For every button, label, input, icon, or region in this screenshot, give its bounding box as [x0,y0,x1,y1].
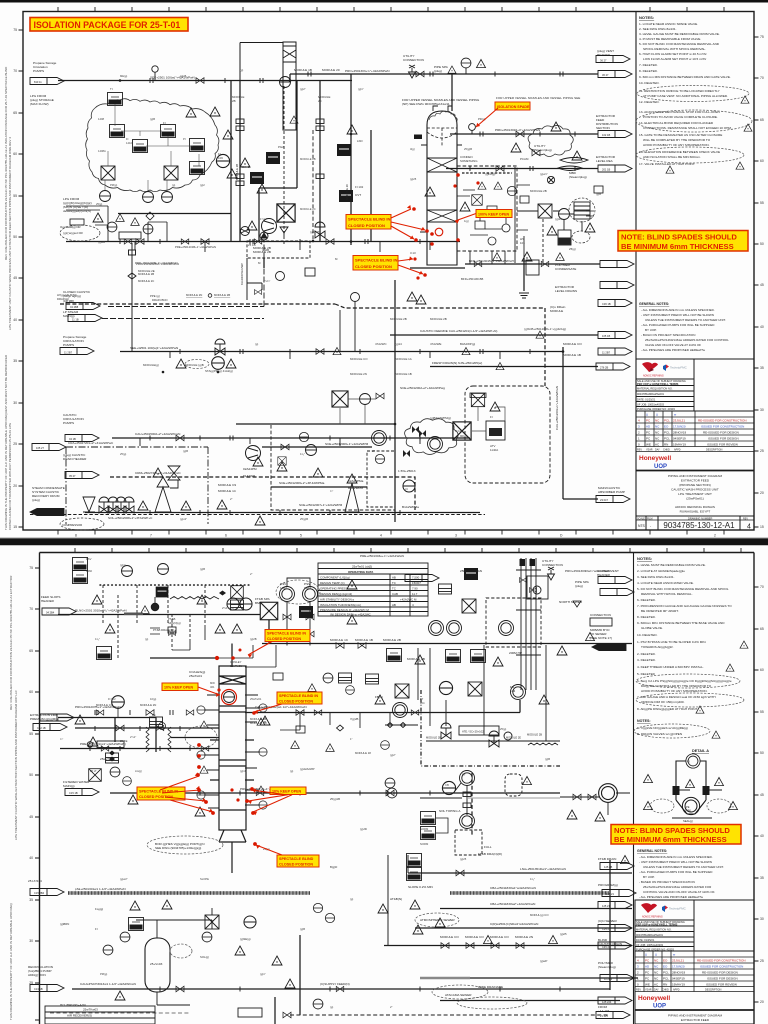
svg-text:10(g): 10(g) [150,697,156,701]
svg-text:25wTw01 (α)(β): 25wTw01 (α)(β) [352,565,372,569]
svg-text:04 2B8: 04 2B8 [70,305,79,309]
bottom-left cluster [129,918,144,931]
right flag drain module [598,332,632,339]
svg-text:LPG TREATMENT UNIT: LPG TREATMENT UNIT [678,492,712,496]
svg-text:NORTH SEWER: NORTH SEWER [559,600,583,604]
svg-text:(g)2B: (g)2B [262,248,269,252]
notes list text [639,22,732,166]
svg-text:MODULE 2B: MODULE 2B [383,638,401,642]
svg-text:75: 75 [29,566,33,570]
page1 border frame [23,12,754,531]
svg-text:3: 3 [638,425,640,429]
svg-text:2"x1": 2"x1" [130,735,136,739]
svg-text:CHKD: CHKD [663,449,670,452]
svg-text:TI: TI [110,87,113,91]
svg-text:PC: PC [646,431,651,435]
svg-text:23 047: 23 047 [600,498,608,502]
svg-text:1- LEVEL MUST BE REMOVABLE FRO: 1- LEVEL MUST BE REMOVABLE FROM VALVE. [637,563,706,567]
fe square on premium [150,717,163,727]
funnel lens B [558,166,582,171]
pipe ftb drain [408,872,632,874]
p2 honeywell uop [638,995,670,1010]
circles under table [429,621,444,636]
dashed drop to tag2 [542,219,544,264]
svg-text:REV 4 RE-ISSUED FOR CONSTRUCTI: REV 4 RE-ISSUED FOR CONSTRUCTION 23JUL21… [9,575,13,710]
svg-text:25 LT: 25 LT [90,769,97,773]
svg-text:PURCHASE ORDER NO: 40303: PURCHASE ORDER NO: 40303 [636,947,674,951]
pipe closed caustic [108,241,264,307]
xd square big lower [453,422,471,440]
cv d [124,497,134,513]
svg-text:Δ: Δ [656,413,658,417]
flag texts p2 [34,611,614,1019]
svg-text:12- DELETED.: 12- DELETED. [639,100,660,104]
svg-text:04 2B4: 04 2B4 [46,611,55,615]
valve on h17 [516,131,524,137]
svg-text:70: 70 [760,76,764,80]
svg-text:40: 40 [29,856,33,860]
svg-text:RLNG+2501 3010w1¹/₂"+42A2WPwN: RLNG+2501 3010w1¹/₂"+42A2WPwN [75,609,127,613]
svg-text:25: 25 [760,449,764,453]
psv valves [283,614,291,620]
svg-text:NTS: NTS [638,524,646,528]
valve at top [376,393,384,399]
svg-text:B(g)D: B(g)D [330,865,337,869]
riser V5 [350,74,352,245]
svg-text:36 27: 36 27 [602,73,609,77]
svg-text:NOTES:: NOTES: [639,15,654,20]
svg-text:PI: PI [687,760,690,764]
svg-text:PRD+2501202B+1"+42A2WPwN: PRD+2501202B+1"+42A2WPwN [135,261,178,265]
P2CONTENT [58,615,638,1024]
svg-text:25(g)B: 25(g)B [300,517,308,521]
flange ticks water line [180,349,530,354]
svg-text:DESIGN TEMP (C): DESIGN TEMP (C) [320,581,345,585]
svg-text:FRESH DRAIN(N) NJN+2501205(w): FRESH DRAIN(N) NJN+2501205(w) [432,361,482,365]
svg-text:AVOID POSSIBILITY OF ANY MISOP: AVOID POSSIBILITY OF ANY MISOPERATION. [641,689,708,693]
cv valve b [489,731,499,747]
ruler ticks left + numbers [19,30,24,527]
gray drain dashed [50,1012,190,1014]
instrument square FI [161,125,176,138]
svg-text:3: 3 [637,965,639,969]
svg-text:C25 21: C25 21 [602,927,611,931]
svg-text:PE: PE [686,805,690,809]
svg-text:Δ: Δ [646,413,648,417]
orange tag keepopen1 [162,683,198,691]
svg-text:¾": ¾" [330,489,333,493]
orange tag sb3 [137,787,185,800]
pipe recirculation long [72,988,610,990]
wire instrument links [105,104,199,191]
svg-text:PUMPS: PUMPS [63,343,74,347]
right flags p2 [600,863,634,870]
detail A pump [682,797,699,814]
detail A triangles [686,780,695,788]
central instrument box SC-25-102 [459,726,499,735]
pump circle small mbd [547,176,554,183]
svg-text:LNA+2501351Dw1"+42A2WCwN: LNA+2501351Dw1"+42A2WCwN [520,867,566,871]
svg-text:35: 35 [29,898,33,902]
svg-text:(g)B: (g)B [150,117,155,121]
svg-text:ISSUED FOR CONSTRUCTION: ISSUED FOR CONSTRUCTION [700,965,743,969]
svg-text:3(g): 3(g) [410,147,415,151]
svg-text:02A24PM: 02A24PM [243,467,257,471]
skirt cone [83,497,95,512]
svg-text:HEADER: HEADER [597,53,611,57]
svg-text:1140A: 1140A [490,448,498,452]
valve 2 [201,239,209,245]
svg-text:PRE+2501301(w1"+42A2WPwN): PRE+2501301(w1"+42A2WPwN) [80,742,126,746]
svg-text:132: 132 [510,689,515,693]
svg-text:FAN: FAN [476,569,482,573]
svg-text:101: 101 [520,241,525,245]
pipe extractor feed dist [450,133,598,135]
svg-text:ATMOSPHERIC SEWER: ATMOSPHERIC SEWER [420,918,455,922]
svg-text:Overhead(g) DR: Overhead(g) DR [60,225,81,229]
svg-text:(g): (g) [290,769,293,773]
svg-text:AD: AD [646,425,651,429]
svg-text:SPECTACLE BLIND IN: SPECTACLE BLIND IN [355,258,397,263]
svg-text:- UNIT INSTRUMENT PREFIX WILL: - UNIT INSTRUMENT PREFIX WILL NOT BE SHO… [639,860,712,864]
svg-text:w: w [674,413,677,417]
svg-text:HCL/BRN(P)+A(N): HCL/BRN(P)+A(N) [60,1003,86,1007]
dashed center line V4 [312,130,314,241]
svg-text:(g)25: (g)25 [460,857,467,861]
svg-text:(NP) SEE DWG 9034785w131w11: (NP) SEE DWG 9034785w131w11 [402,102,450,106]
svg-text:(Steam/plug): (Steam/plug) [598,965,616,969]
fitting line y725 [385,645,560,741]
svg-text:(g)25: (g)25 [560,932,567,936]
svg-text:(g)w1": (g)w1" [540,172,548,176]
svg-text:C13 1B: C13 1B [34,987,43,991]
valve on h8 [176,435,184,441]
svg-text:NOTE: BLIND SPADES SHOULD: NOTE: BLIND SPADES SHOULD [621,233,737,242]
svg-text:FE: FE [152,713,156,717]
svg-text:FB(1): FB(1) [375,695,383,699]
svg-text:125 21: 125 21 [606,892,614,896]
svg-text:20: 20 [760,1000,764,1004]
svg-text:SEE+42501 100(w)1"+42A2WPwN: SEE+42501 100(w)1"+42A2WPwN [130,346,178,350]
svg-text:LV: LV [405,487,408,491]
valve 3 [326,239,334,245]
svg-text:PER UOP w HONEYWELL TERMS: PER UOP w HONEYWELL TERMS [637,382,679,386]
svg-text:25wTw01: 25wTw01 [250,697,262,701]
svg-text:1410: 1410 [126,141,132,145]
svg-text:1"x¾": 1"x¾" [263,279,270,283]
svg-text:ISSUED FOR DESIGN: ISSUED FOR DESIGN [707,977,738,981]
vent circle on feed line [469,124,476,134]
svg-text:MODUL(g) CO: MODUL(g) CO [530,913,549,917]
red spectacle dots [412,173,479,279]
svg-text:10% KEEP OPEN: 10% KEEP OPEN [164,686,194,690]
svg-text:0: 0 [638,443,640,447]
svg-text:GENERAL NOTES:: GENERAL NOTES: [637,849,667,853]
svg-text:125 2B: 125 2B [604,865,612,869]
valves on mid header [336,643,344,649]
svg-text:NC: NC [655,425,660,429]
svg-text:25wTw01: 25wTw01 [230,664,242,668]
arrow flag sewer [592,644,626,651]
connection box [590,618,612,626]
pipe pre left [60,748,219,750]
svg-text:SOL TOPING A: SOL TOPING A [439,809,461,813]
svg-text:(g)CVT: (g)CVT [310,230,320,234]
svg-text:CLOSED POSITION: CLOSED POSITION [348,223,385,228]
triangle near cloud [210,107,220,116]
svg-text:GENERAL NOTES:: GENERAL NOTES: [639,302,669,306]
svg-text:EO: EO [663,965,668,969]
svg-text:50: 50 [13,235,17,239]
svg-text:MODULE 2B: MODULE 2B [527,733,542,737]
svg-text:AB: AB [392,603,396,607]
circle ff bottom [313,999,323,1009]
psv circle B [303,587,318,602]
p2 description [668,1014,723,1024]
right flag caustic settler [598,348,632,355]
svg-text:55: 55 [29,732,33,736]
svg-text:11 1B: 11 1B [72,318,79,322]
svg-text:(25wPSw01): (25wPSw01) [686,497,704,501]
dome revision cloud [429,111,457,122]
svg-text:(g)2B: (g)2B [98,240,105,244]
svg-text:30: 30 [13,401,17,405]
valve on h18 [496,166,504,172]
pipe top of dashed box [236,423,395,425]
svg-text:AC: AC [654,983,659,987]
svg-text:20: 20 [760,491,764,495]
dark box theta [339,190,353,202]
svg-text:REV: REV [637,449,642,452]
svg-text:(g)B: (g)B [545,757,550,761]
svg-text:- ALL PIPELINES ARE PROPOSED H: - ALL PIPELINES ARE PROPOSED HEREwITw [641,348,706,352]
svg-text:UNLESS THE INSTRUMENT REFERS T: UNLESS THE INSTRUMENT REFERS TO ANOTHER … [645,318,726,322]
riser main right [394,280,396,522]
instrument circle PM [100,191,111,202]
svg-text:04SEP19: 04SEP19 [673,437,686,441]
svg-text:SCALE: SCALE [637,517,645,520]
dashed box fb130 [486,598,541,647]
riser x132 with fittings [128,243,262,352]
svg-text:55: 55 [13,194,17,198]
svg-text:(g): (g) [462,772,465,776]
pipe absorber pump [563,498,598,500]
svg-text:(04) 2B8: (04) 2B8 [63,299,74,303]
svg-text:UNLESS THE INSTRUMENT REFERS T: UNLESS THE INSTRUMENT REFERS TO ANOTHER … [643,865,724,869]
svg-text:YEAR: YEAR [646,449,653,452]
svg-text:B1A2WPMa: B1A2WPMa [402,505,419,509]
control valve station [99,497,109,513]
p2 second notes rows [637,726,688,736]
vertical link and sq boxes near ftb [388,855,408,945]
riser vessel feed [451,74,453,111]
svg-text:APPD: APPD [673,989,680,992]
svg-text:1460: 1460 [86,569,92,573]
p2 title block [635,900,754,1024]
svg-text:45: 45 [760,283,764,287]
flange ticks caustic header [120,239,420,244]
svg-text:9- 600 mm MIN DISTANCE BETWEEN: 9- 600 mm MIN DISTANCE BETWEEN DRAIN AND… [639,75,731,79]
svg-text:276 2B: 276 2B [600,366,608,370]
flange ticks circulation [150,436,420,441]
svg-text:MODULE 20: MODULE 20 [345,184,349,200]
svg-text:1408: 1408 [98,117,104,121]
svg-text:(Mo)p agn(g): (Mo)p agn(g) [63,294,81,298]
svg-text:Δ: Δ [655,953,657,957]
svg-text:LKD: LKD [357,139,363,143]
svg-text:125 224: 125 224 [602,1000,612,1004]
svg-text:(g)42A2WP: (g)42A2WP [300,767,315,771]
cv c [116,497,126,513]
svg-text:1408A: 1408A [98,149,106,153]
svg-text:(g): (g) [172,183,175,187]
circle fb130 [499,621,514,636]
svg-text:55: 55 [760,710,764,714]
svg-text:EXTRACTOR FEED: EXTRACTOR FEED [681,1018,710,1022]
capsule vessel [145,938,170,992]
svg-text:NOTES:: NOTES: [637,719,651,723]
small cluster left of tower [323,673,333,683]
xd fi1140 [471,393,484,406]
svg-text:SECTION: SECTION [596,126,610,130]
svg-text:2": 2" [230,497,232,501]
pipe propane storage main [58,80,352,82]
valve b1 [281,444,289,450]
svg-text:- ALL PURCHASED PUMPS FOR WILL: - ALL PURCHASED PUMPS FOR WILL BE SUPPLI… [639,870,713,874]
svg-text:40: 40 [760,834,764,838]
svg-text:(g)SCB+25012006+1"+(g)42A(g): (g)SCB+25012006+1"+(g)42A(g) [524,327,566,331]
left nozzle dark [414,135,422,140]
xd top [231,586,244,599]
flange ticks level line [470,166,575,171]
svg-text:PC: PC [645,977,650,981]
FI circle above pipe [112,696,125,709]
water line triangles cluster [176,359,186,368]
left margin rotated revision text [4,66,12,530]
svg-text:1486: 1486 [685,809,691,813]
sewer clouds [415,913,459,927]
svg-text:(plug): (plug) [575,584,583,588]
svg-text:PRD+25013016+4"+42A2WPwN: PRD+25013016+4"+42A2WPwN [495,128,540,132]
cv b [108,497,118,513]
p2 top ruler ticks [75,548,741,553]
detail A dark fittings [673,786,710,795]
psv sq B [73,571,88,584]
svg-text:04 1B: 04 1B [69,437,76,441]
svg-text:1¹/₂": 1¹/₂" [300,452,305,456]
pipe pump line2 [271,486,367,488]
svg-text:UOP: UOP [654,464,667,470]
xds mid row [395,684,409,698]
svg-text:AB: AB [392,576,396,580]
svg-text:35: 35 [760,876,764,880]
svg-text:BFD+25013015B: BFD+25013015B [461,277,483,281]
svg-text:GLOBE VALVE.: GLOBE VALVE. [641,626,663,630]
svg-text:NC: NC [655,437,660,441]
svg-text:7(g)2B: 7(g)2B [350,717,359,721]
vertical to water line [340,302,355,351]
tower instrument red circled [224,692,235,703]
funnel drain [280,227,288,236]
svg-text:ISOLATION PACKAGE FOR 25-T-01: ISOLATION PACKAGE FOR 25-T-01 [34,20,181,30]
svg-text:19MAY19: 19MAY19 [673,443,686,447]
svg-text:NOTES:: NOTES: [637,556,652,561]
svg-text:MODULE CO: MODULE CO [250,721,268,725]
dashed KO drum box [457,166,517,251]
psv risers [287,578,310,646]
svg-text:PCAM: PCAM [520,157,529,161]
svg-text:MODULE 2B: MODULE 2B [214,293,230,297]
svg-text:2"x1"x1¹/₂": 2"x1"x1¹/₂" [222,606,235,610]
svg-text:COPIED LOANED OR TRANSMITTED W: COPIED LOANED OR TRANSMITTED WITHOUT PER… [8,422,12,530]
svg-text:MODULE CO: MODULE CO [440,935,459,939]
svg-text:CAUSTIC FEED/DE CAU+2501201(1-: CAUSTIC FEED/DE CAU+2501201(1-1/2"+42A2W… [420,329,497,333]
svg-text:YEAR: YEAR [645,989,652,992]
lpg from cluster extra [66,206,167,241]
svg-text:105 1B: 105 1B [602,334,610,338]
svg-text:Honeywell: Honeywell [638,995,670,1002]
dark box MOD17 [250,172,264,184]
svg-text:M: M [258,261,261,265]
svg-text:NC: NC [654,965,659,969]
svg-text:SEAL(g): SEAL(g) [683,819,693,823]
TechnipFMC logo [663,365,688,372]
svg-text:CLOSED POSITION: CLOSED POSITION [267,637,301,641]
extra fittings on left pipes p2 [90,710,560,992]
svg-text:CONDENSATE: CONDENSATE [555,267,576,271]
svg-text:90(g): 90(g) [460,434,467,438]
red annotations p2 [137,630,322,868]
svg-text:C12 1B: C12 1B [37,726,46,730]
svg-text:BE MINIMUM 6mm THICKNESS: BE MINIMUM 6mm THICKNESS [614,835,727,844]
pipe lp steam [102,318,264,320]
logo cell [636,359,694,379]
box 25M03 [238,1008,262,1017]
svg-text:MAIN(g): MAIN(g) [63,784,75,788]
svg-text:60: 60 [29,690,33,694]
svg-text:CVT: CVT [355,193,361,197]
pipe mid header [262,643,632,645]
svg-text:MODULE 1B: MODULE 1B [294,68,312,72]
dark box top [156,587,169,598]
svg-text:NC: NC [654,977,659,981]
svg-text:50: 50 [760,242,764,246]
svg-text:35: 35 [760,366,764,370]
svg-text:(g): (g) [330,1005,333,1009]
svg-text:106: 106 [218,156,223,160]
svg-text:COMPONENT (LIQ)(g): COMPONENT (LIQ)(g) [320,576,350,580]
svg-text:4: 4 [637,959,639,963]
svg-text:Fog(g): Fog(g) [95,907,103,911]
svg-text:(g)wP: (g)wP [540,959,547,963]
svg-text:CONNECTION: CONNECTION [590,613,611,617]
cloud right of break [185,726,217,748]
p2 notes divider [633,553,635,1024]
ruler ticks top [58,7,724,12]
svg-text:60: 60 [760,668,764,672]
svg-text:17JUN20: 17JUN20 [672,965,685,969]
pump cluster piping [560,793,630,815]
left flag cra [32,444,66,451]
svg-text:5- DELETED: 5- DELETED [637,672,656,676]
svg-text:5- DO NOT BLIND. FOR MAINTENAN: 5- DO NOT BLIND. FOR MAINTENANCE REMOVAL… [637,587,729,591]
svg-text:4- KEEP THREAD UNDER A 600 BPV: 4- KEEP THREAD UNDER A 600 BPV INSTALL. [637,665,704,669]
svg-text:+42A2WC M: +42A2WC M [400,598,417,602]
triangle near cloud2 [223,130,233,139]
svg-text:PM(g): PM(g) [110,183,117,187]
left flag feed slops [42,608,76,615]
pipe cba [440,908,632,910]
